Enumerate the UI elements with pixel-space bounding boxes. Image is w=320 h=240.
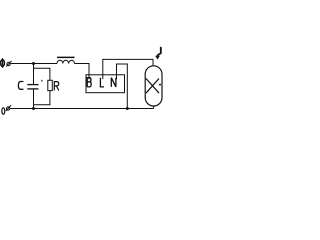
lamp cross electrode marks [146, 79, 159, 94]
net label Ф (phase) [1, 58, 5, 68]
terminal X1 (phase input) [6, 61, 11, 67]
capacitor C [27, 85, 38, 89]
label R [54, 82, 59, 91]
lamp gas dot [159, 84, 161, 86]
pin label L [100, 78, 104, 87]
wire neutral: terminal to lamp bottom [10, 108, 153, 110]
polarity tick mark near capacitor [41, 80, 44, 82]
wire: node A down to capacitor [33, 64, 35, 85]
node B (junction on neutral wire) [32, 107, 35, 110]
node A (junction on phase wire) [32, 62, 35, 65]
wire: inductor to igniter terminal B [75, 64, 90, 75]
terminal pin L stub [102, 75, 104, 79]
wire: igniter N over and down to neutral [117, 64, 128, 109]
terminal X2 (neutral input) [6, 105, 11, 111]
net label 0 (neutral) [2, 108, 5, 115]
resistor R [48, 80, 53, 90]
pin label B [87, 78, 91, 87]
inductor L1 (ballast choke) [57, 60, 75, 63]
wire phase: terminal to junction to inductor [11, 63, 57, 65]
terminal pin N stub [116, 75, 118, 79]
igniter box U1 [86, 75, 125, 93]
wire: lamp bottom lead [153, 106, 155, 109]
wire: igniter L up and over to lamp top [103, 59, 153, 74]
wire: branch split to resistor top [34, 68, 50, 80]
igniter pulse arrow [155, 47, 161, 60]
node C (junction neutral/lamp return) [126, 107, 129, 110]
pin label N [111, 78, 116, 87]
inductor core bar [57, 56, 75, 58]
wire: resistor bottom to branch join [34, 91, 50, 105]
wire: capacitor bottom to node B [33, 89, 35, 109]
label C [18, 82, 23, 90]
lamp EL1 (discharge tube envelope) [145, 66, 162, 106]
terminal pin B stub [88, 75, 90, 79]
